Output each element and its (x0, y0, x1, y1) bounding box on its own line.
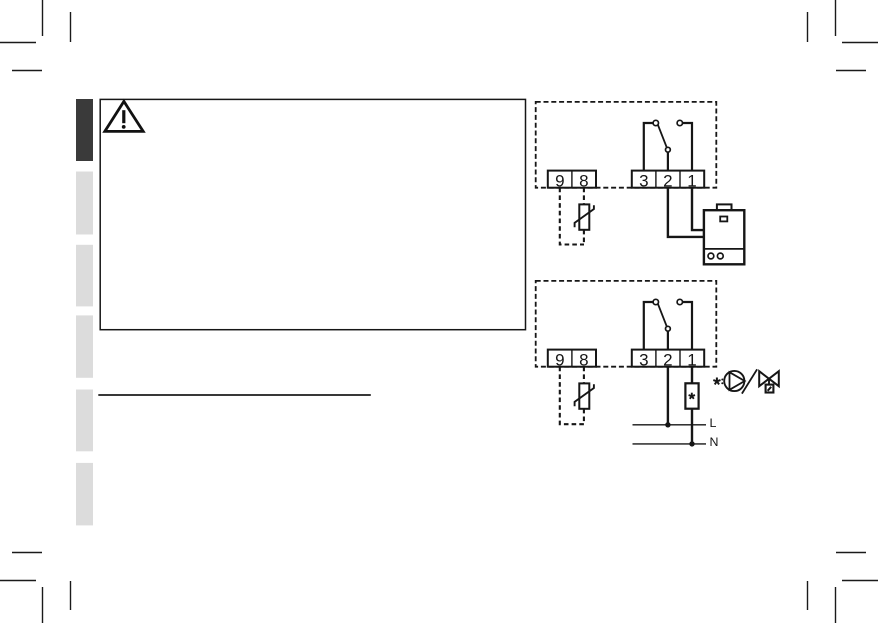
note rule under warning box (98, 394, 371, 396)
dashed sensor wire from terminal 8 (diagram 2) (583, 367, 585, 384)
wire to terminal 1 (683, 302, 693, 350)
wire to terminal 1 (683, 123, 693, 171)
warning text box (100, 99, 525, 329)
wire terminal 2 to L (667, 367, 669, 425)
svg-text:3: 3 (639, 171, 648, 190)
NTC diagonal mark (diagram 2) (575, 384, 594, 406)
svg-text:3: 3 (639, 350, 648, 369)
dashed wire below sensor (583, 230, 585, 245)
dashed sensor wire from terminal 9 (560, 188, 584, 245)
relay changeover contact 1: wire from terminal 3 (644, 123, 653, 171)
wire terminal 1 to boiler (692, 188, 704, 230)
warning triangle icon (105, 101, 143, 131)
NTC diagonal mark (575, 205, 594, 227)
contact circle (3 side) (653, 299, 658, 304)
dashed controller enclosure 2 (536, 281, 717, 367)
legend asterisk (713, 378, 720, 385)
wire pole to terminal 2 (667, 152, 669, 170)
contact circle (1 side) (677, 120, 682, 125)
contact circle (3 side) (653, 120, 658, 125)
slash separator (742, 369, 757, 393)
terminal block 9-8 (diagram 2) (548, 350, 596, 370)
contact blade (658, 304, 667, 326)
section tab 4 (76, 315, 93, 377)
contact circle (1 side) (677, 299, 682, 304)
svg-text:1: 1 (687, 350, 696, 369)
outside sensor NTC body (diagram 1) (579, 204, 589, 229)
section tab 6 (76, 463, 93, 526)
wire load to N (691, 409, 693, 444)
svg-text:1: 1 (687, 171, 696, 190)
outside sensor NTC body (diagram 2) (579, 383, 589, 408)
junction dot on L (665, 422, 670, 427)
L supply line (633, 424, 707, 426)
terminal block 3-2-1 (diagram 2) (632, 350, 704, 370)
valve icon (759, 371, 779, 392)
svg-text:2: 2 (663, 171, 672, 190)
pole circle (2 side) (666, 147, 671, 152)
dashed sensor wire from terminal 9 (diagram 2) (560, 367, 584, 425)
wire terminal 2 to boiler (668, 188, 704, 237)
dashed controller enclosure 1 (536, 102, 717, 188)
junction dot on N (689, 441, 694, 446)
terminal block 3-2-1 (diagram 1) (632, 171, 704, 191)
relay changeover contact 2: wire from terminal 3 (644, 302, 653, 350)
wire terminal 1 to load (691, 367, 693, 384)
contact blade (658, 125, 667, 147)
N supply line (633, 443, 707, 445)
dashed sensor wire from terminal 8 (583, 188, 585, 205)
svg-text:9: 9 (555, 350, 564, 369)
wire pole to terminal 2 (667, 331, 669, 349)
dashed wire below sensor (diagram 2) (583, 409, 585, 424)
legend colon (721, 379, 723, 381)
svg-text:L: L (710, 416, 717, 430)
svg-text:8: 8 (579, 350, 588, 369)
pump icon (724, 371, 745, 391)
boiler icon (704, 204, 744, 264)
load box asterisk label (689, 393, 695, 399)
pole circle (2 side) (666, 326, 671, 331)
load box (asterisk appliance) (685, 383, 698, 408)
svg-text:N: N (710, 435, 719, 449)
section tab 1 (active, dark) (76, 99, 93, 161)
section tab 2 (76, 172, 93, 235)
terminal block 9-8 (diagram 1) (548, 171, 596, 191)
svg-text:9: 9 (555, 171, 564, 190)
section tab 3 (76, 245, 93, 307)
svg-text:2: 2 (663, 350, 672, 369)
section tab 5 (76, 390, 93, 452)
svg-text:8: 8 (579, 171, 588, 190)
